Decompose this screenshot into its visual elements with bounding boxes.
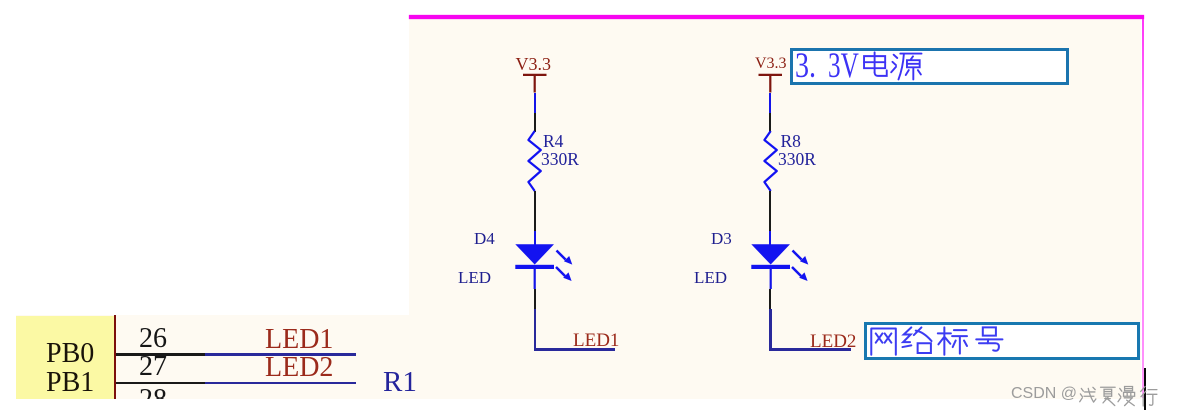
LED D4 symbol: [510, 240, 580, 290]
chip U1 body: [16, 316, 114, 400]
pin 26 line: [116, 353, 205, 356]
wire net LED1 vertical (navy): [534, 309, 537, 351]
selection border top (magenta line): [409, 15, 1144, 19]
wire segment (black) below D4: [534, 289, 536, 310]
wire net LED1 (bottom clip): [205, 353, 356, 356]
power port V3.3 label (circuit 1): [516, 55, 552, 73]
net label LED1 (top clip): [573, 331, 619, 350]
pin 26 number: [139, 325, 167, 353]
annotation box: 3.3V power supply: [790, 48, 1069, 85]
annotation text 网络标号 (CJK drawn as SVG): [867, 325, 1007, 357]
resistor R8 designator: [781, 133, 801, 151]
wire segment (black) below D3: [769, 289, 771, 310]
net label LED2 (bottom clip): [265, 354, 333, 382]
LED D3 symbol: [746, 240, 816, 290]
LED D4 comment LED: [458, 269, 491, 286]
resistor R4 designator: [543, 133, 563, 151]
wire net LED1 horizontal (navy): [534, 348, 615, 351]
LED D3 designator: [711, 230, 732, 247]
net label LED1 (bottom clip): [265, 326, 333, 354]
power port V3.3 label (circuit 2): [755, 56, 787, 72]
pin 27 number: [139, 353, 167, 381]
wire V3.3 to R4 (blue segment): [534, 93, 536, 114]
LED D4 anode pin (blue): [534, 231, 536, 245]
pin 27 line: [116, 382, 205, 385]
pin 28 number (clipped): [16, 315, 409, 400]
LED D3 anode pin (blue): [769, 231, 771, 245]
sheet background (bottom-left schematic clip): [16, 315, 409, 400]
wire segment (black) R4 to D4: [534, 191, 536, 231]
pin name PB0: [46, 340, 94, 368]
annotation box: net label: [864, 322, 1140, 360]
annotation text 电源 (CJK drawn as SVG): [858, 50, 926, 82]
resistor R4 value 330R: [541, 151, 579, 169]
resistor R8: [756, 128, 786, 196]
resistor R1 designator (partial, bottom clip): [383, 368, 417, 397]
annotation text 3.3V (latin part): [795, 47, 816, 83]
text cursor (black caret): [1144, 368, 1146, 410]
wire net LED2 vertical (navy): [769, 309, 772, 351]
chip U1 right border: [114, 315, 116, 400]
wire net LED2 (bottom clip): [205, 382, 356, 385]
watermark 浅夏漫行 (CJK drawn as SVG): [1078, 385, 1164, 408]
watermark CSDN @: [1011, 386, 1077, 402]
wire segment (black) above R4: [534, 113, 536, 132]
pin name PB1: [46, 369, 94, 397]
selection border right (pink line): [1142, 19, 1144, 398]
wire segment (black) above R8: [769, 113, 771, 132]
LED D4 designator: [474, 230, 495, 247]
wire V3.3 to R8 (blue segment): [769, 93, 771, 114]
wire net LED2 horizontal (navy): [769, 348, 851, 351]
sheet background (top-right schematic clip): [409, 19, 1141, 399]
LED D3 comment LED: [694, 269, 727, 286]
wire segment (black) R8 to D3: [769, 191, 771, 231]
resistor R4: [520, 128, 550, 196]
net label LED2 (top clip): [810, 332, 856, 351]
resistor R8 value 330R: [778, 151, 816, 169]
